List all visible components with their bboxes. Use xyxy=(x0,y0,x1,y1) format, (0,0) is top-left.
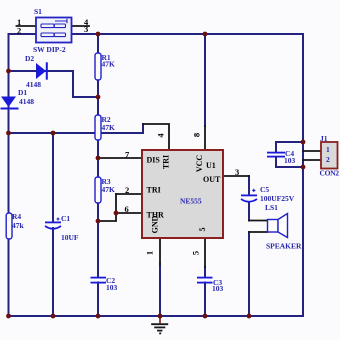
svg-text:6: 6 xyxy=(125,204,129,214)
svg-text:47K: 47K xyxy=(102,123,116,132)
svg-text:3: 3 xyxy=(84,24,88,34)
svg-text:S1: S1 xyxy=(34,7,42,16)
svg-text:8: 8 xyxy=(192,133,202,137)
svg-text:103: 103 xyxy=(106,283,118,292)
svg-text:1: 1 xyxy=(145,251,155,255)
svg-text:U1: U1 xyxy=(206,161,216,170)
svg-text:5: 5 xyxy=(191,251,201,255)
svg-text:CON2: CON2 xyxy=(320,169,340,178)
svg-text:103: 103 xyxy=(284,156,296,165)
svg-text:10UF: 10UF xyxy=(61,233,79,242)
svg-text:R4: R4 xyxy=(12,212,21,221)
svg-text:100UF25V: 100UF25V xyxy=(260,194,295,203)
svg-text:J1: J1 xyxy=(320,134,328,143)
svg-text:SPEAKER: SPEAKER xyxy=(266,242,302,251)
svg-text:VCC: VCC xyxy=(195,155,204,173)
svg-text:47k: 47k xyxy=(12,221,25,230)
svg-text:4148: 4148 xyxy=(19,97,34,106)
svg-text:LS1: LS1 xyxy=(265,203,278,212)
svg-text:GND: GND xyxy=(151,215,160,233)
svg-text:D2: D2 xyxy=(25,54,34,63)
svg-text:5: 5 xyxy=(198,228,207,232)
svg-text:NE555: NE555 xyxy=(180,197,202,206)
svg-text:DIS: DIS xyxy=(147,156,161,165)
svg-text:2: 2 xyxy=(326,155,330,164)
svg-text:1: 1 xyxy=(326,145,330,154)
svg-text:OUT: OUT xyxy=(203,175,221,184)
svg-text:2: 2 xyxy=(125,185,129,195)
svg-text:TRI: TRI xyxy=(162,155,171,169)
svg-text:3: 3 xyxy=(235,167,239,177)
svg-text:2: 2 xyxy=(17,25,21,35)
svg-text:SW DIP-2: SW DIP-2 xyxy=(33,45,66,54)
svg-text:TRI: TRI xyxy=(147,185,161,194)
svg-text:103: 103 xyxy=(212,284,224,293)
svg-text:D1: D1 xyxy=(18,88,27,97)
svg-text:C5: C5 xyxy=(260,185,269,194)
svg-text:47K: 47K xyxy=(102,185,116,194)
svg-text:4148: 4148 xyxy=(26,80,41,89)
svg-text:C1: C1 xyxy=(61,214,70,223)
svg-text:47K: 47K xyxy=(102,60,116,69)
